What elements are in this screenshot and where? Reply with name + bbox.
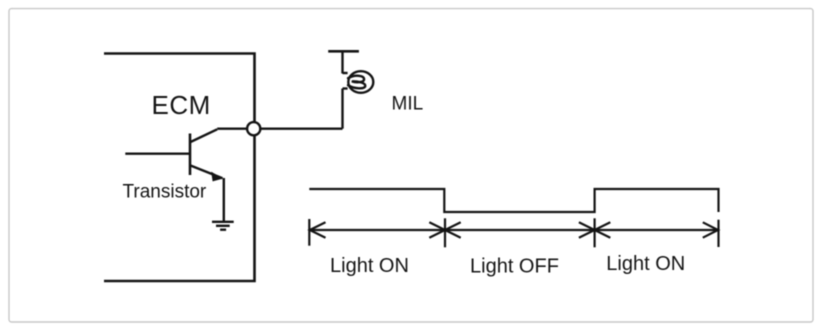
power supply bar bbox=[328, 50, 359, 53]
arrowhead left (points left) bbox=[310, 222, 326, 237]
tick middle 2 bbox=[593, 218, 595, 247]
ECM box (open left) bbox=[104, 54, 255, 282]
transistor Q1 emitter arrowhead bbox=[211, 172, 223, 182]
transistor Q1 emitter diagonal bbox=[191, 166, 223, 179]
svg-text:Light ON: Light ON bbox=[330, 255, 409, 277]
arrowheads at middle tick 1 bbox=[429, 222, 460, 237]
wire lamp riser (vertical) bbox=[341, 89, 343, 129]
transistor Q1 base wire bbox=[125, 152, 190, 154]
wire power to lamp bbox=[341, 51, 343, 73]
tick right bbox=[717, 220, 719, 247]
tick left bbox=[308, 219, 310, 246]
tick middle 1 bbox=[444, 218, 446, 247]
arrowhead right (points right) bbox=[703, 222, 718, 237]
wire lamp bottom jog bbox=[343, 87, 348, 89]
svg-text:MIL: MIL bbox=[392, 93, 424, 114]
wire node to lamp (horizontal) bbox=[261, 127, 343, 129]
svg-text:Light ON: Light ON bbox=[606, 253, 685, 275]
wire collector to node bbox=[217, 127, 248, 129]
transistor Q1 base bar bbox=[189, 134, 192, 176]
lamp filament bbox=[348, 76, 365, 89]
waveform trace bbox=[309, 189, 718, 212]
ground bbox=[212, 222, 234, 230]
wire lamp top jog bbox=[343, 72, 348, 74]
wire emitter to ground bbox=[223, 178, 225, 222]
svg-text:Light OFF: Light OFF bbox=[470, 256, 559, 278]
transistor Q1 collector diagonal bbox=[191, 129, 218, 142]
lamp MIL bulb circle bbox=[348, 71, 373, 93]
node junction circle bbox=[247, 122, 260, 135]
svg-text:ECM: ECM bbox=[152, 90, 211, 120]
dimension line bbox=[309, 229, 718, 231]
arrowheads at middle tick 2 bbox=[579, 222, 610, 237]
svg-text:Transistor: Transistor bbox=[123, 181, 207, 202]
